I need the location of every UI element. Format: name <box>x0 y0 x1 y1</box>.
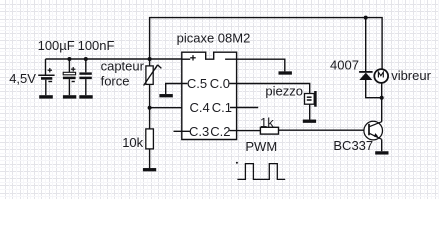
piezzo PZ1 <box>305 91 316 120</box>
transistor Q1 BC337 <box>364 121 383 151</box>
wire U1 C.2 pin to R1 <box>230 130 261 132</box>
svg-text:force: force <box>101 74 130 89</box>
resistor R2 10k <box>146 108 154 169</box>
svg-text:BC337: BC337 <box>333 138 373 153</box>
node D1 top <box>364 16 368 20</box>
op-amp U1 picaxe 08M2 body <box>182 52 237 139</box>
wire riser from +V rail node up to motor feed <box>150 18 383 70</box>
ground piezzo <box>303 120 316 123</box>
capacitor C1 100uF <box>63 59 76 95</box>
svg-text:100nF: 100nF <box>78 38 115 53</box>
ground battery <box>39 95 53 98</box>
ground R2 <box>143 168 156 171</box>
motor M1 vibreur <box>374 69 388 83</box>
wire +V rail from battery to picaxe + pin <box>46 58 191 60</box>
diode D1 4007 <box>359 18 382 98</box>
ground C2 <box>79 95 92 98</box>
wire motor to transistor collector <box>381 83 383 122</box>
svg-text:C.5: C.5 <box>187 76 207 91</box>
PWM square wave <box>237 164 285 180</box>
wire + pin interior stub <box>182 58 190 60</box>
node D1-M1 bottom <box>380 96 384 100</box>
svg-text:1k: 1k <box>260 115 274 130</box>
wire U1 C.1 stub <box>230 107 258 109</box>
svg-text:100µF: 100µF <box>38 38 75 53</box>
wire U1 C.5 pin to ground <box>166 84 188 95</box>
ground U1 minus <box>279 71 292 74</box>
svg-text:picaxe 08M2: picaxe 08M2 <box>177 30 251 45</box>
wire U1 C.3 stub <box>174 130 191 132</box>
wire node to picaxe C.4 pin <box>150 107 190 109</box>
battery B1 4,5V <box>38 59 54 95</box>
ground C.5 <box>159 94 172 97</box>
svg-text:C.2: C.2 <box>210 124 230 139</box>
svg-text:C.0: C.0 <box>210 76 230 91</box>
svg-text:4007: 4007 <box>330 58 359 73</box>
U1 pin + mark <box>190 55 196 60</box>
node rail-C2 <box>84 57 88 61</box>
node stray dot <box>236 162 238 164</box>
ground C1 <box>63 95 76 98</box>
wire U1 C.0 pin to piezzo <box>229 84 309 94</box>
svg-text:C.4: C.4 <box>190 100 210 115</box>
node RV1-R2-C.4 <box>148 106 152 110</box>
svg-text:C.3: C.3 <box>189 124 209 139</box>
node rail-C1 <box>67 57 71 61</box>
ground Q1 emitter <box>375 151 388 154</box>
svg-text:4,5V: 4,5V <box>9 71 36 86</box>
motor M label <box>378 72 383 77</box>
capacitor C2 100nF <box>79 59 91 95</box>
svg-text:capteur: capteur <box>101 58 145 73</box>
wire U1 - pin to ground <box>229 59 285 71</box>
svg-text:C.1: C.1 <box>212 100 232 115</box>
wire R1 to Q1 base <box>279 129 369 131</box>
U1 pin - mark <box>225 58 228 60</box>
node rail-RV1 <box>148 57 152 61</box>
resistor RV1 capteur force (variable) <box>144 59 162 108</box>
resistor R1 1k <box>260 127 278 134</box>
svg-text:10k: 10k <box>122 135 143 150</box>
svg-text:PWM: PWM <box>245 139 277 154</box>
svg-text:vibreur: vibreur <box>391 68 431 83</box>
svg-text:piezzo: piezzo <box>265 83 303 98</box>
